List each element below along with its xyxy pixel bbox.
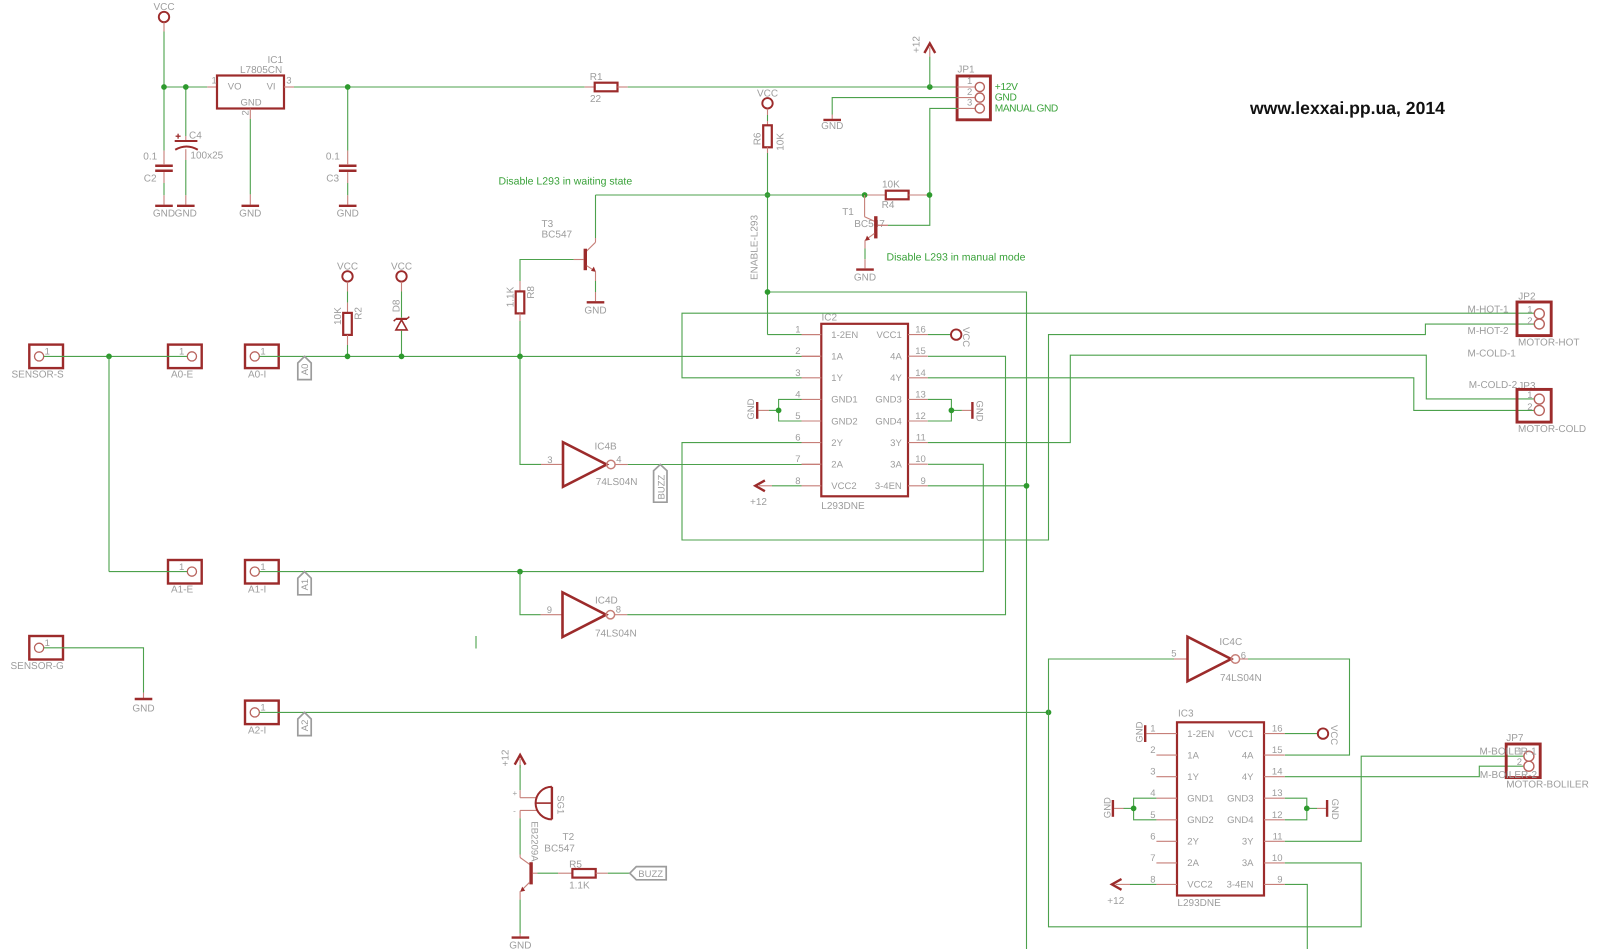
- svg-text:1A: 1A: [831, 352, 843, 363]
- svg-text:+: +: [512, 789, 517, 798]
- svg-text:-: -: [513, 806, 516, 815]
- svg-text:10K: 10K: [776, 133, 787, 151]
- svg-text:1: 1: [1150, 724, 1155, 735]
- svg-text:2A: 2A: [1187, 858, 1199, 869]
- svg-text:3-4EN: 3-4EN: [1227, 880, 1254, 891]
- svg-text:R5: R5: [569, 860, 582, 871]
- svg-text:VCC: VCC: [337, 262, 358, 273]
- svg-text:1: 1: [1527, 390, 1532, 401]
- svg-text:14: 14: [1272, 767, 1283, 778]
- svg-text:+12: +12: [750, 497, 767, 508]
- svg-text:C3: C3: [326, 173, 339, 184]
- svg-text:GND: GND: [821, 121, 843, 132]
- svg-text:GND: GND: [509, 941, 531, 949]
- svg-text:2: 2: [967, 87, 972, 98]
- svg-text:T2: T2: [563, 832, 575, 843]
- svg-text:0.1: 0.1: [143, 151, 157, 162]
- svg-text:C4: C4: [189, 130, 202, 141]
- svg-text:0.1: 0.1: [326, 151, 340, 162]
- svg-text:+12V: +12V: [995, 82, 1018, 93]
- svg-text:BC547: BC547: [542, 230, 573, 241]
- svg-text:GND2: GND2: [831, 416, 857, 427]
- svg-text:MOTOR-BOLILER: MOTOR-BOLILER: [1506, 780, 1589, 791]
- svg-text:4: 4: [795, 389, 800, 400]
- svg-text:9: 9: [547, 605, 552, 616]
- svg-text:10: 10: [1272, 853, 1283, 864]
- svg-text:JP1: JP1: [957, 65, 975, 76]
- svg-text:GND: GND: [584, 305, 606, 316]
- svg-text:VCC: VCC: [1328, 725, 1339, 745]
- svg-text:14: 14: [915, 368, 926, 379]
- svg-text:1Y: 1Y: [1187, 772, 1199, 783]
- svg-text:8: 8: [1150, 874, 1155, 885]
- svg-text:A2: A2: [300, 720, 311, 732]
- svg-text:BC547: BC547: [544, 844, 575, 855]
- svg-text:GND4: GND4: [1227, 815, 1253, 826]
- svg-text:6: 6: [795, 433, 800, 444]
- svg-text:GND3: GND3: [875, 395, 901, 406]
- svg-text:1Y: 1Y: [831, 373, 843, 384]
- svg-text:11: 11: [916, 433, 926, 444]
- svg-text:GND3: GND3: [1227, 794, 1253, 805]
- svg-text:1-2EN: 1-2EN: [831, 330, 858, 341]
- svg-text:13: 13: [915, 389, 926, 400]
- svg-text:A1-E: A1-E: [171, 585, 194, 596]
- svg-text:GND: GND: [1135, 721, 1146, 742]
- svg-text:GND: GND: [1329, 799, 1340, 820]
- svg-text:BUZZ: BUZZ: [638, 869, 663, 880]
- svg-text:2A: 2A: [831, 460, 843, 471]
- svg-text:A1: A1: [300, 579, 311, 591]
- svg-text:3-4EN: 3-4EN: [875, 481, 902, 492]
- svg-text:3: 3: [1150, 767, 1155, 778]
- svg-text:+12: +12: [1107, 896, 1124, 907]
- svg-text:VCC1: VCC1: [876, 330, 901, 341]
- svg-text:2: 2: [1150, 745, 1155, 756]
- svg-text:GND: GND: [175, 208, 197, 219]
- svg-text:74LS04N: 74LS04N: [596, 477, 638, 488]
- svg-text:4A: 4A: [890, 352, 902, 363]
- svg-text:SENSOR-G: SENSOR-G: [11, 661, 65, 672]
- svg-text:7: 7: [795, 454, 800, 465]
- svg-text:1-2EN: 1-2EN: [1187, 729, 1214, 740]
- svg-text:1: 1: [1527, 305, 1532, 316]
- svg-text:M-HOT-1: M-HOT-1: [1468, 305, 1510, 316]
- svg-text:IC3: IC3: [1178, 708, 1194, 719]
- svg-text:GND: GND: [1103, 797, 1114, 818]
- svg-text:6: 6: [1150, 831, 1155, 842]
- svg-text:IC4D: IC4D: [595, 595, 618, 606]
- svg-text:MANUAL GND: MANUAL GND: [995, 104, 1058, 115]
- svg-text:7: 7: [1150, 853, 1155, 864]
- svg-text:A0-I: A0-I: [248, 369, 266, 380]
- svg-text:MOTOR-HOT: MOTOR-HOT: [1518, 338, 1579, 349]
- svg-text:1.1K: 1.1K: [505, 286, 516, 307]
- svg-text:VCC: VCC: [391, 262, 412, 273]
- svg-text:3: 3: [547, 455, 552, 466]
- svg-text:1: 1: [212, 76, 217, 87]
- svg-text:8: 8: [795, 476, 800, 487]
- svg-text:VCC: VCC: [757, 89, 778, 100]
- svg-text:D8: D8: [392, 299, 403, 312]
- svg-text:15: 15: [1272, 745, 1283, 756]
- svg-text:10: 10: [915, 454, 926, 465]
- svg-text:L293DNE: L293DNE: [1177, 898, 1221, 909]
- svg-text:Disable L293 in manual mode: Disable L293 in manual mode: [887, 251, 1026, 263]
- svg-text:12: 12: [1272, 810, 1283, 821]
- svg-text:+12: +12: [911, 36, 922, 53]
- svg-text:VO: VO: [228, 81, 242, 92]
- svg-text:M-HOT-2: M-HOT-2: [1468, 326, 1510, 337]
- svg-text:A0: A0: [300, 364, 311, 376]
- svg-text:JP7: JP7: [1506, 733, 1524, 744]
- svg-text:1: 1: [260, 702, 265, 713]
- svg-text:10K: 10K: [333, 307, 344, 325]
- svg-text:SG1: SG1: [555, 795, 566, 814]
- svg-text:5: 5: [795, 411, 800, 422]
- svg-text:A0-E: A0-E: [171, 369, 194, 380]
- svg-text:A1-I: A1-I: [248, 585, 266, 596]
- svg-text:4Y: 4Y: [890, 373, 902, 384]
- svg-text:L7805CN: L7805CN: [240, 65, 282, 76]
- svg-text:T1: T1: [842, 207, 854, 218]
- svg-text:2: 2: [1517, 757, 1522, 768]
- svg-text:Disable L293 in waiting state: Disable L293 in waiting state: [499, 175, 633, 187]
- svg-text:+12: +12: [501, 749, 512, 766]
- svg-text:GND1: GND1: [831, 395, 857, 406]
- svg-text:www.lexxai.pp.ua, 2014: www.lexxai.pp.ua, 2014: [1249, 98, 1445, 118]
- svg-text:GND4: GND4: [875, 416, 901, 427]
- svg-text:74LS04N: 74LS04N: [1220, 673, 1262, 684]
- svg-text:74LS04N: 74LS04N: [595, 629, 637, 640]
- svg-text:16: 16: [915, 325, 926, 336]
- svg-text:9: 9: [921, 476, 926, 487]
- svg-text:C2: C2: [144, 173, 157, 184]
- svg-text:2: 2: [795, 346, 800, 357]
- svg-text:4Y: 4Y: [1242, 772, 1254, 783]
- svg-text:3: 3: [967, 98, 972, 109]
- svg-text:GND: GND: [995, 93, 1017, 104]
- svg-text:GND: GND: [132, 703, 154, 714]
- svg-text:M-COLD-2: M-COLD-2: [1469, 380, 1518, 391]
- svg-text:11: 11: [1273, 831, 1283, 842]
- svg-text:R8: R8: [526, 286, 537, 299]
- svg-text:GND1: GND1: [1187, 794, 1213, 805]
- svg-text:13: 13: [1272, 788, 1283, 799]
- svg-text:R2: R2: [354, 307, 365, 320]
- svg-text:3A: 3A: [890, 460, 902, 471]
- svg-text:2Y: 2Y: [1187, 837, 1199, 848]
- svg-text:15: 15: [915, 346, 926, 357]
- svg-text:2: 2: [1527, 316, 1532, 327]
- svg-text:1.1K: 1.1K: [569, 881, 590, 892]
- svg-text:3: 3: [795, 368, 800, 379]
- svg-text:6: 6: [1241, 651, 1246, 662]
- svg-text:5: 5: [1171, 649, 1176, 660]
- svg-text:M-COLD-1: M-COLD-1: [1468, 348, 1517, 359]
- svg-text:10K: 10K: [882, 180, 900, 191]
- svg-text:22: 22: [590, 94, 602, 105]
- svg-text:GND: GND: [337, 208, 359, 219]
- svg-text:ENABLE-L293: ENABLE-L293: [750, 215, 761, 280]
- svg-text:SENSOR-S: SENSOR-S: [12, 369, 65, 380]
- svg-text:BC547: BC547: [854, 219, 885, 230]
- svg-text:BUZZ: BUZZ: [656, 475, 667, 500]
- svg-text:VCC: VCC: [960, 327, 971, 347]
- svg-text:GND: GND: [240, 97, 261, 108]
- svg-text:VI: VI: [267, 81, 276, 92]
- svg-text:4A: 4A: [1242, 750, 1254, 761]
- svg-text:12: 12: [915, 411, 926, 422]
- svg-text:GND: GND: [239, 208, 261, 219]
- svg-text:4: 4: [616, 454, 621, 465]
- svg-text:16: 16: [1272, 724, 1283, 735]
- svg-text:2Y: 2Y: [831, 438, 843, 449]
- svg-text:1: 1: [795, 325, 800, 336]
- svg-text:VCC1: VCC1: [1228, 729, 1253, 740]
- svg-text:3Y: 3Y: [1242, 837, 1254, 848]
- svg-text:1A: 1A: [1187, 750, 1199, 761]
- svg-text:MOTOR-COLD: MOTOR-COLD: [1518, 424, 1586, 435]
- svg-text:IC4B: IC4B: [595, 442, 618, 453]
- svg-text:VCC2: VCC2: [1187, 880, 1212, 891]
- svg-text:9: 9: [1277, 874, 1282, 885]
- svg-text:5: 5: [1150, 810, 1155, 821]
- svg-text:A2-I: A2-I: [248, 725, 266, 736]
- svg-text:VCC: VCC: [153, 2, 174, 13]
- svg-text:EB2209A: EB2209A: [528, 821, 539, 862]
- svg-text:GND: GND: [973, 401, 984, 422]
- svg-text:R1: R1: [590, 72, 603, 83]
- svg-text:3: 3: [286, 76, 291, 87]
- svg-text:GND: GND: [854, 272, 876, 283]
- svg-text:2: 2: [1527, 402, 1532, 413]
- svg-text:100x25: 100x25: [190, 151, 223, 162]
- svg-text:1: 1: [967, 76, 972, 87]
- svg-text:GND: GND: [153, 208, 175, 219]
- svg-text:GND2: GND2: [1187, 815, 1213, 826]
- svg-text:R6: R6: [752, 132, 763, 145]
- svg-text:3A: 3A: [1242, 858, 1254, 869]
- svg-text:3Y: 3Y: [890, 438, 902, 449]
- svg-text:GND: GND: [746, 398, 757, 419]
- svg-text:1: 1: [45, 638, 50, 649]
- svg-text:M-BOILER-1: M-BOILER-1: [1480, 746, 1538, 757]
- svg-text:IC2: IC2: [822, 313, 838, 324]
- svg-text:8: 8: [616, 605, 621, 616]
- svg-text:R4: R4: [882, 200, 895, 211]
- svg-text:IC4C: IC4C: [1219, 637, 1242, 648]
- svg-text:L293DNE: L293DNE: [821, 501, 865, 512]
- svg-text:T3: T3: [542, 219, 554, 230]
- svg-text:VCC2: VCC2: [831, 481, 856, 492]
- svg-text:4: 4: [1150, 788, 1155, 799]
